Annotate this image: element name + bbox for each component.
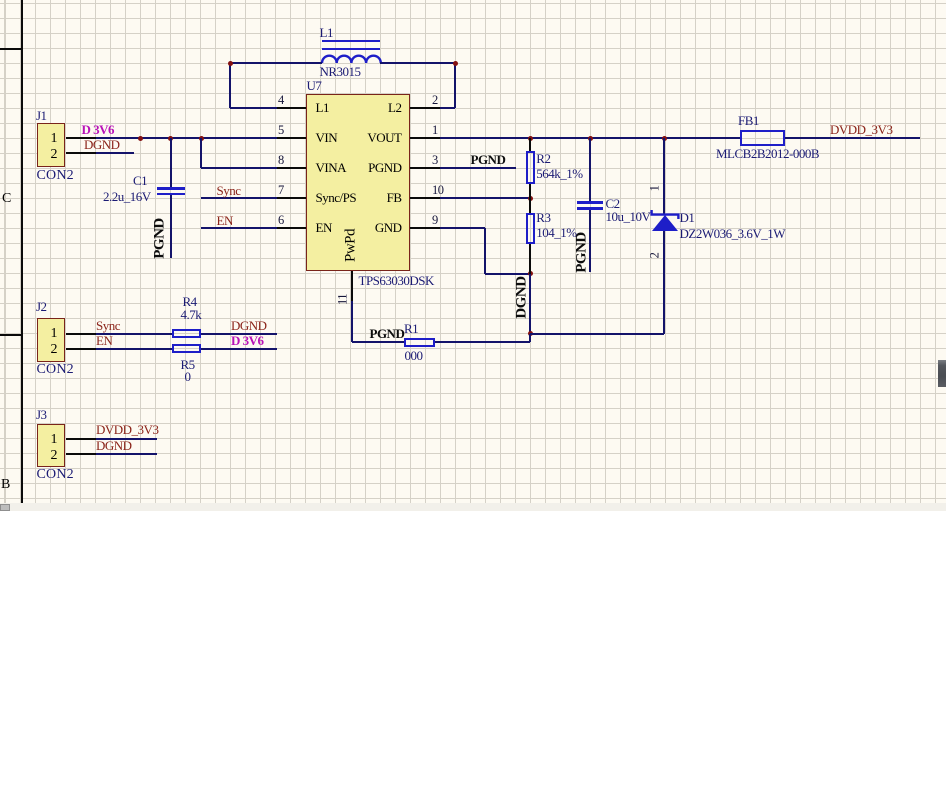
R3 value [536, 226, 576, 239]
wire VINA vertical [200, 138, 202, 168]
J3 pin 1 number [43, 433, 57, 447]
J2 pin 1 number [43, 327, 57, 341]
wire C2 top [589, 138, 591, 202]
resistor R2 pin top [529, 138, 531, 152]
J1 pin 2 number [43, 148, 57, 162]
J1 designator [36, 109, 47, 122]
junction L1 left [228, 61, 233, 66]
junction C2 tap [588, 136, 593, 141]
net label PGND vertical C1 [153, 216, 168, 260]
U7 pin name GND [352, 221, 402, 234]
J3 comment CON2 [37, 468, 74, 481]
U7 pin name L2 [352, 101, 402, 114]
junction R2 tap [528, 136, 533, 141]
net label DGND J3 [96, 439, 132, 452]
J2 pin 2 [66, 348, 97, 350]
U7 comment TPS63030DSK [359, 274, 434, 287]
U7 pin name VOUT [352, 131, 402, 144]
net label EN J2 [96, 334, 112, 347]
junction VIN rail C1 tap [168, 136, 173, 141]
wire DGND jog [529, 334, 531, 343]
junction L1 right [453, 61, 458, 66]
U7 pin name VINA [316, 161, 347, 174]
sheet border vertical line [21, 0, 23, 504]
U7 pin 8 stub [277, 167, 306, 169]
U7 pin name EN [316, 221, 332, 234]
pin number 2 [432, 94, 438, 107]
wire FB pin10 [440, 197, 531, 199]
inductor L1 core bar 1 [322, 40, 380, 42]
zone letter B [1, 478, 10, 492]
capacitor C2 plate top [577, 201, 603, 204]
U7 pin 5 stub [277, 137, 306, 139]
connector J2 [37, 318, 66, 362]
U7 pin 6 stub [277, 227, 306, 229]
C1 value [103, 190, 151, 203]
junction VIN rail VINA tap [199, 136, 204, 141]
U7 pin 9 stub [410, 227, 440, 229]
net label D_3V6 [82, 123, 115, 136]
J1 pin 2 [66, 152, 97, 154]
R5 value [185, 370, 191, 383]
diode D1 zener symbol [649, 207, 681, 233]
pin number 8 [278, 154, 284, 167]
ferrite bead FB1 body [740, 130, 785, 146]
pin number 11 vertical [336, 289, 349, 309]
wire pin11 to R1 [352, 341, 405, 343]
C1 designator [133, 174, 147, 187]
wire DGND J1 [96, 152, 134, 154]
J1 pin 1 [66, 137, 97, 139]
net label PGND pin3 [471, 153, 506, 166]
inductor L1 comment [320, 65, 361, 78]
wire pin11 down [351, 301, 353, 343]
D1 pin number 2 vertical [649, 245, 662, 265]
J3 pin 2 [66, 453, 97, 455]
U7 pin name L1 [316, 101, 329, 114]
R4 value [181, 308, 202, 321]
wire R4 to DGND label [201, 333, 278, 335]
wire GND pin9 b [484, 228, 486, 274]
resistor R1 body [404, 338, 435, 348]
D1 designator [680, 211, 695, 224]
U7 pin 1 stub [410, 137, 440, 139]
wire L1 to corner [380, 62, 455, 64]
C2 value [606, 210, 651, 223]
horizontal scrollbar piece bottom-left [0, 504, 10, 511]
J2 designator [36, 300, 47, 313]
U7 pin name Sync/PS [316, 191, 357, 204]
wire DGND vertical [529, 274, 531, 343]
wire to pin4 [230, 107, 277, 109]
junction D1 tap [662, 136, 667, 141]
connector J1 [37, 123, 66, 167]
resistor R2 pin bottom [529, 184, 531, 199]
U7 pin 11 stub [351, 271, 353, 301]
bottom outside-sheet strip [0, 503, 946, 511]
zone letter C [2, 192, 11, 206]
net label DVDD_3V3 J3 [96, 423, 158, 436]
J1 pin 1 number [43, 132, 57, 146]
capacitor C1 plate bottom [157, 193, 185, 195]
wire DGND rail bottom [530, 333, 664, 335]
inductor L1 core bar 2 [322, 48, 380, 50]
wire D_3V6 to VIN [96, 137, 277, 139]
pin number 5 [278, 124, 284, 137]
wire VOUT rail [440, 137, 741, 139]
J2 comment CON2 [37, 363, 74, 376]
op-amp U7 body [306, 94, 410, 271]
net label DVDD_3V3 [830, 123, 892, 136]
resistor R3 pin bottom [529, 244, 531, 274]
J3 pin 1 [66, 438, 97, 440]
U7 pin 10 stub [410, 197, 440, 199]
pin number 3 [432, 154, 438, 167]
D1 pin number 1 vertical [648, 178, 661, 198]
net label DGND vertical [515, 276, 530, 320]
U7 pin name FB [352, 191, 402, 204]
inductor L1 designator [320, 26, 333, 39]
U7 pin name PGND [352, 161, 402, 174]
sheet border tick upper [0, 48, 21, 50]
wire to pin2 [440, 107, 456, 109]
wire D1 top [663, 138, 665, 214]
R2 value [536, 167, 582, 180]
net label DGND J2 [231, 319, 267, 332]
resistor R4 body [172, 329, 201, 338]
resistor R3 pin top [529, 198, 531, 213]
capacitor C2 plate bottom [577, 207, 603, 210]
FB1 comment [716, 147, 819, 160]
net label DGND J1 [84, 138, 120, 151]
wire C1 top [170, 138, 172, 187]
resistor R2 body [526, 151, 535, 184]
net label PGND vertical C2 [575, 231, 590, 275]
pin number 4 [278, 94, 284, 107]
capacitor C1 plate top [157, 187, 185, 189]
wire EN J2 to R5 [96, 348, 172, 350]
resistor R3 body [526, 213, 535, 244]
resistor R5 body [172, 344, 201, 353]
U7 pin name PwPd vertical [343, 226, 358, 266]
junction DGND rail [528, 331, 533, 336]
J1 comment CON2 [37, 169, 74, 182]
J2 pin 2 number [43, 343, 57, 357]
U7 pin 3 stub [410, 167, 440, 169]
wire C1 bottom to PGND [170, 195, 172, 258]
wire VINA to pin8 [201, 167, 277, 169]
R4 designator [183, 295, 197, 308]
wire Sync J2 to R4 [96, 333, 172, 335]
R5 designator [181, 358, 195, 371]
wire down to pin2 [454, 63, 456, 108]
junction GND node [528, 271, 533, 276]
connector J3 [37, 424, 66, 468]
inductor L1 coil [320, 51, 383, 65]
pin number 6 [278, 214, 284, 227]
sheet border tick lower [0, 334, 21, 336]
wire R1 to DGND node [435, 341, 531, 343]
R3 designator [536, 211, 550, 224]
net label EN [217, 214, 233, 227]
J3 pin 2 number [43, 449, 57, 463]
pin number 7 [278, 184, 284, 197]
U7 pin 2 stub [410, 107, 440, 109]
U7 pin 7 stub [277, 197, 306, 199]
wire DVDD_3V3 J3 [96, 438, 157, 440]
D1 value [680, 227, 786, 240]
C2 designator [606, 197, 620, 210]
net label PGND R1 [370, 327, 405, 340]
pin number 9 [432, 214, 438, 227]
wire PGND pin3 [440, 167, 517, 169]
wire GND pin9 a [440, 227, 486, 229]
wire DGND J3 [96, 453, 157, 455]
pin number 1 [432, 124, 438, 137]
junction FB [528, 196, 533, 201]
U7 pin name VIN [316, 131, 338, 144]
R1 value [405, 349, 423, 362]
wire Sync to pin7 [201, 197, 277, 199]
J3 designator [36, 408, 47, 421]
R1 designator [404, 322, 418, 335]
wire C2 bottom to PGND [589, 210, 591, 272]
R2 designator [536, 152, 550, 165]
wire R5 to D_3V6 label [201, 348, 278, 350]
U7 designator [307, 79, 322, 92]
wire D1 bottom [663, 231, 665, 334]
vertical scrollbar thumb right [938, 360, 946, 387]
wire down to pin4 [229, 63, 231, 108]
pin number 10 [432, 184, 444, 197]
net label Sync [217, 184, 241, 197]
FB1 designator [738, 114, 759, 127]
wire EN to pin6 [201, 227, 277, 229]
wire GND pin9 c [485, 273, 530, 275]
net label Sync J2 [96, 319, 120, 332]
wire DVDD rail [785, 137, 920, 139]
wire VIN-L1 left [231, 62, 322, 64]
net label D_3V6 J2 [231, 334, 264, 347]
J2 pin 1 [66, 333, 97, 335]
junction VIN rail a [138, 136, 143, 141]
U7 pin 4 stub [277, 107, 306, 109]
